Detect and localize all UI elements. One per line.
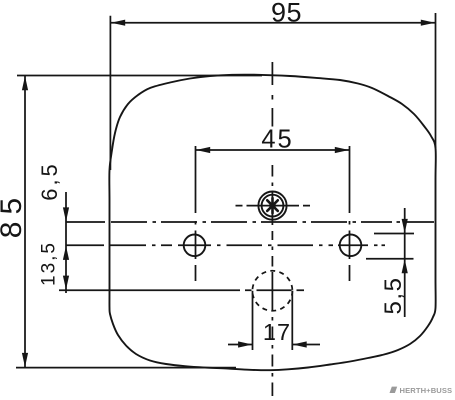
- arrow down to bottom line: [63, 276, 69, 290]
- svg-text:95: 95: [271, 0, 302, 28]
- dim 95 extension line left: [109, 16, 111, 170]
- dim 95 arrow left: [111, 20, 125, 26]
- dim 95 extension line right: [435, 13, 437, 148]
- dim 45 arrow right: [335, 147, 349, 153]
- arrow up to bottom ext: [402, 259, 408, 273]
- dim 17 line left segment: [228, 344, 253, 346]
- left mounting hole: [184, 235, 206, 257]
- dim 5.5 extension line top: [374, 233, 414, 235]
- lamp housing outline: [109, 75, 435, 371]
- svg-text:HERTH+BUSS: HERTH+BUSS: [400, 386, 453, 395]
- dim 6.5 / 13.5 extension line y=289: [59, 289, 240, 291]
- arrow down to axis line: [63, 207, 69, 221]
- dim 6.5/13.5 line: [65, 192, 67, 293]
- svg-text:5,5: 5,5: [380, 277, 407, 315]
- centre line vertical left hole: [195, 146, 197, 281]
- svg-text:13,5: 13,5: [39, 241, 60, 286]
- dim 85 extension line bottom: [16, 367, 236, 369]
- screw head inner circle: [262, 195, 284, 217]
- right mounting hole: [340, 235, 362, 257]
- dim 5.5 extension line bottom: [366, 258, 414, 260]
- dim 45 line: [196, 149, 350, 151]
- dim 95 arrow right: [421, 20, 435, 26]
- centre line horizontal through bottom hole: [245, 289, 304, 291]
- svg-text:6,5: 6,5: [37, 161, 62, 201]
- svg-text:17: 17: [263, 319, 291, 345]
- centre line horizontal through side holes: [66, 244, 385, 246]
- dim 5.5 line: [404, 208, 406, 317]
- logo icon: [390, 387, 398, 393]
- dim 17 extension line left: [252, 291, 254, 350]
- dim 85 arrow bottom: [22, 353, 28, 367]
- bottom hidden hole (dashed): [252, 271, 292, 311]
- dim 17 line right segment: [292, 344, 320, 346]
- screw head cross recess: [267, 198, 278, 213]
- dim 95 line: [110, 22, 435, 24]
- dim 17 arrow right: [293, 341, 307, 347]
- arrow down to top ext: [402, 219, 408, 233]
- screw head outer circle: [258, 192, 286, 220]
- dim 85 arrow top: [22, 76, 28, 90]
- centre line horizontal axis: [66, 221, 434, 223]
- svg-text:45: 45: [261, 126, 293, 154]
- dim 85 line: [24, 76, 26, 368]
- dim 45 arrow left: [196, 147, 210, 153]
- centre line vertical main: [271, 62, 273, 396]
- arrow up to holes line: [63, 246, 69, 260]
- dim 17 arrow left: [238, 341, 252, 347]
- dim 85 extension line top: [17, 75, 262, 77]
- dim 17 extension line right: [291, 291, 293, 350]
- centre line vertical right hole: [349, 146, 351, 281]
- centre line horizontal through screw: [236, 205, 311, 207]
- svg-text:85: 85: [0, 191, 28, 238]
